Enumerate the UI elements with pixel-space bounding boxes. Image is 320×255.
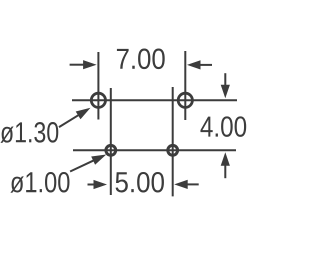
bottom-right hole vertical centerline / 5.00 extension line (172, 87, 174, 196)
dimension text 7.00 (117, 49, 129, 69)
dimension 4.00 down arrow (221, 85, 230, 99)
dimension 7.00 left arrow (83, 60, 97, 69)
bottom centerline (horizontal axis through bottom holes) (73, 149, 236, 151)
hole top-left ø1.30 (91, 93, 105, 107)
hole bottom-right ø1.00 (168, 145, 178, 155)
top-right hole vertical centerline / 7.00 extension line (184, 51, 186, 120)
dimension 7.00 right arrow (187, 60, 201, 69)
top-left hole vertical centerline / 7.00 extension line (97, 52, 99, 120)
dimension 5.00 right arrow (174, 180, 188, 189)
leader arrow to top-left hole (ø1.30) (76, 108, 91, 120)
dimension 5.00 left arrow (94, 180, 108, 189)
dimension 4.00 up arrow (221, 152, 230, 166)
bottom-left hole vertical centerline / 5.00 extension line (110, 88, 112, 195)
hole label ø1.00 (10, 176, 23, 192)
top centerline (horizontal axis through top holes) (72, 99, 237, 101)
leader arrow to bottom-left hole (ø1.00) (91, 155, 106, 165)
dimension text 4.00 (200, 117, 212, 137)
hole label ø1.30 (0, 126, 13, 142)
hole bottom-left ø1.00 (106, 145, 116, 155)
dimension text 5.00 (116, 172, 128, 192)
hole top-right ø1.30 (178, 93, 192, 107)
